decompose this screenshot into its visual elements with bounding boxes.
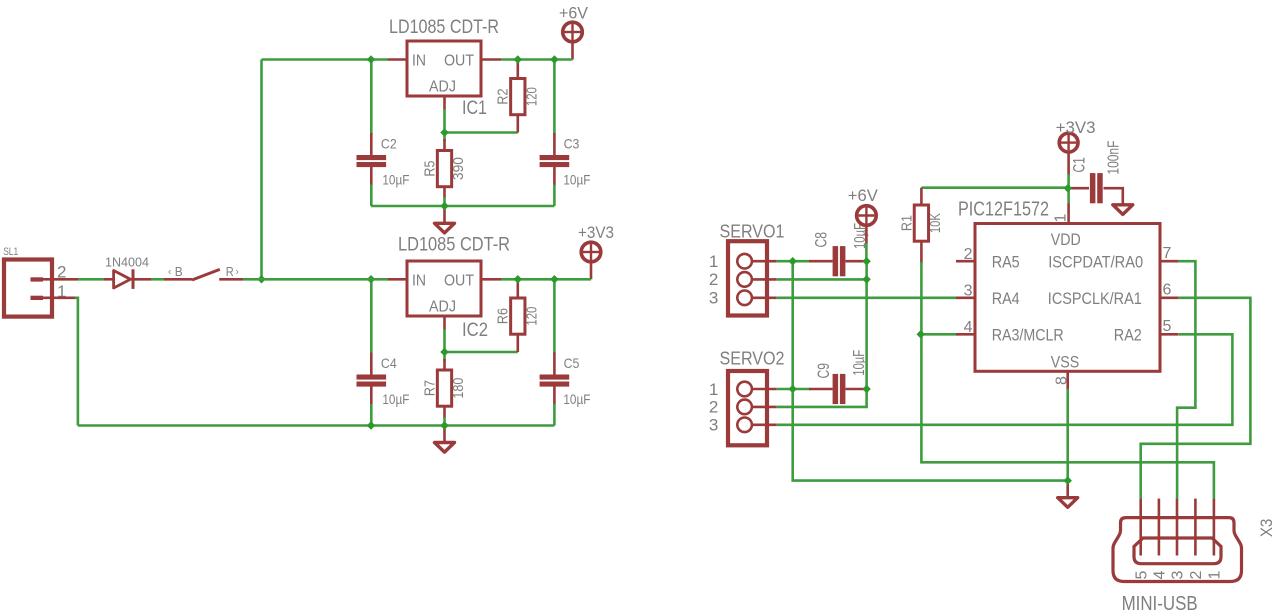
svg-text:RA2: RA2 — [1114, 325, 1142, 344]
svg-text:4: 4 — [1152, 570, 1169, 579]
svg-text:RA5: RA5 — [992, 252, 1020, 271]
svg-text:ICSPCLK/RA1: ICSPCLK/RA1 — [1048, 289, 1142, 308]
svg-text:1N4004: 1N4004 — [105, 256, 149, 270]
svg-text:2: 2 — [57, 263, 66, 282]
svg-text:›: › — [236, 267, 239, 278]
svg-text:+6V: +6V — [559, 4, 589, 23]
svg-text:‹: ‹ — [168, 267, 171, 278]
svg-text:3: 3 — [709, 416, 718, 435]
svg-text:SL1: SL1 — [3, 246, 18, 258]
svg-text:1: 1 — [709, 380, 718, 399]
svg-text:2: 2 — [1188, 570, 1205, 579]
svg-text:PIC12F1572: PIC12F1572 — [958, 198, 1049, 221]
svg-text:RA3/MCLR: RA3/MCLR — [992, 325, 1064, 344]
svg-text:R5: R5 — [421, 161, 438, 177]
svg-text:+3V3: +3V3 — [1056, 118, 1096, 137]
svg-text:ISCPDAT/RA0: ISCPDAT/RA0 — [1048, 252, 1143, 271]
svg-text:4: 4 — [964, 319, 973, 336]
svg-text:3: 3 — [709, 289, 718, 308]
svg-text:SERVO2: SERVO2 — [720, 349, 785, 369]
svg-text:+3V3: +3V3 — [578, 223, 614, 242]
svg-text:1: 1 — [709, 252, 718, 271]
svg-text:X3: X3 — [1257, 519, 1276, 538]
svg-text:8: 8 — [1053, 376, 1070, 385]
svg-text:C5: C5 — [564, 355, 580, 371]
svg-text:10K: 10K — [928, 213, 944, 233]
svg-text:R2: R2 — [495, 89, 512, 105]
svg-text:OUT: OUT — [444, 273, 474, 290]
svg-text:R1: R1 — [898, 215, 915, 231]
svg-text:+6V: +6V — [848, 186, 879, 205]
svg-text:IN: IN — [412, 53, 426, 70]
svg-text:120: 120 — [524, 307, 540, 326]
svg-text:6: 6 — [1163, 282, 1172, 299]
svg-text:LD1085 CDT-R: LD1085 CDT-R — [398, 235, 510, 256]
svg-text:IC1: IC1 — [462, 98, 487, 119]
svg-text:C8: C8 — [812, 232, 831, 248]
svg-text:SERVO1: SERVO1 — [720, 222, 785, 242]
svg-text:B: B — [175, 265, 183, 279]
svg-text:C2: C2 — [381, 136, 397, 152]
svg-text:C3: C3 — [564, 136, 580, 152]
svg-text:10µF: 10µF — [382, 391, 409, 407]
svg-text:180: 180 — [451, 378, 467, 399]
svg-text:2: 2 — [709, 270, 718, 289]
svg-text:C4: C4 — [381, 355, 397, 371]
svg-text:R6: R6 — [495, 308, 512, 324]
svg-text:R: R — [226, 265, 234, 279]
svg-text:ADJ: ADJ — [429, 299, 456, 316]
svg-text:3: 3 — [964, 282, 973, 299]
svg-text:LD1085 CDT-R: LD1085 CDT-R — [389, 17, 499, 38]
svg-text:IC2: IC2 — [462, 320, 488, 341]
svg-text:10µF: 10µF — [563, 391, 590, 407]
svg-text:R7: R7 — [421, 380, 438, 396]
svg-text:C1: C1 — [1069, 157, 1088, 173]
svg-text:MINI-USB: MINI-USB — [1122, 593, 1198, 615]
svg-text:120: 120 — [524, 87, 540, 106]
svg-text:1: 1 — [1207, 570, 1224, 579]
svg-text:3: 3 — [1170, 570, 1187, 579]
svg-text:VDD: VDD — [1051, 230, 1081, 249]
svg-text:IN: IN — [412, 273, 426, 290]
svg-text:100nF: 100nF — [1106, 140, 1123, 174]
svg-text:5: 5 — [1163, 318, 1172, 335]
svg-text:RA4: RA4 — [992, 289, 1020, 308]
svg-text:7: 7 — [1163, 245, 1172, 262]
svg-text:10µF: 10µF — [382, 172, 409, 188]
svg-text:VSS: VSS — [1051, 352, 1080, 371]
svg-text:OUT: OUT — [444, 53, 474, 70]
svg-text:1: 1 — [1053, 213, 1070, 222]
svg-text:390: 390 — [451, 157, 467, 180]
svg-text:C9: C9 — [814, 363, 833, 379]
svg-text:5: 5 — [1133, 570, 1150, 579]
svg-text:10µF: 10µF — [563, 172, 590, 188]
svg-text:ADJ: ADJ — [429, 79, 456, 96]
svg-text:2: 2 — [709, 398, 718, 417]
svg-text:10µF: 10µF — [851, 350, 868, 376]
